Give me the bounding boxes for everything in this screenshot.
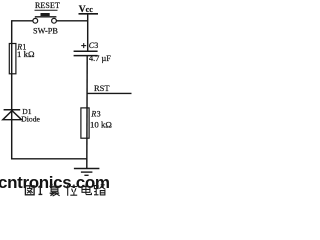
- button cap: [41, 13, 50, 16]
- anode triangle: [3, 111, 22, 120]
- wire: bottom horizontal: [11, 158, 87, 160]
- svg-text:10 kΩ: 10 kΩ: [90, 119, 112, 129]
- caption 图 1 复位电路 (drawn glyphs): [25, 184, 105, 196]
- top plate: [74, 50, 98, 52]
- wire: switch to Vcc rail: [56, 20, 88, 22]
- glyph 复: [49, 184, 59, 196]
- svg-text:4.7 µF: 4.7 µF: [89, 54, 111, 63]
- glyph 图: [25, 186, 34, 195]
- cathode bar: [4, 109, 21, 111]
- svg-text:1 kΩ: 1 kΩ: [17, 49, 35, 59]
- resistor R3: [81, 108, 112, 138]
- svg-text:Diode: Diode: [21, 114, 40, 123]
- node RST: [87, 83, 132, 93]
- right contact circle: [52, 18, 57, 23]
- glyph 位: [66, 184, 77, 195]
- plus sign: [81, 45, 86, 47]
- bridge bar: [35, 16, 57, 18]
- glyph 1: [38, 186, 42, 195]
- ground: [74, 169, 100, 176]
- svg-text:RST: RST: [94, 83, 110, 93]
- diode D1: [3, 107, 41, 124]
- wire: left rail (vertical): [11, 20, 13, 159]
- capacitor C3: [74, 41, 112, 63]
- glyph 电: [82, 184, 91, 194]
- resistor R1: [9, 43, 35, 74]
- svg-text:SW-PB: SW-PB: [33, 27, 58, 36]
- power Vcc: [79, 5, 99, 15]
- wire: right rail Vcc to capacitor: [87, 14, 89, 51]
- svg-text:3: 3: [94, 41, 98, 50]
- wire: right rail capacitor to ground: [86, 56, 88, 169]
- svg-text:3: 3: [97, 110, 101, 119]
- svg-text:cntronics.com: cntronics.com: [0, 173, 110, 192]
- label RESET: [35, 1, 60, 10]
- svg-text:R: R: [90, 110, 96, 119]
- wire: left rail to switch: [11, 20, 33, 22]
- left contact circle: [33, 18, 38, 23]
- switch SW-PB (push button): [33, 13, 58, 36]
- glyph 路: [94, 185, 105, 195]
- svg-text:RESET: RESET: [35, 1, 60, 10]
- bottom plate: [74, 55, 98, 57]
